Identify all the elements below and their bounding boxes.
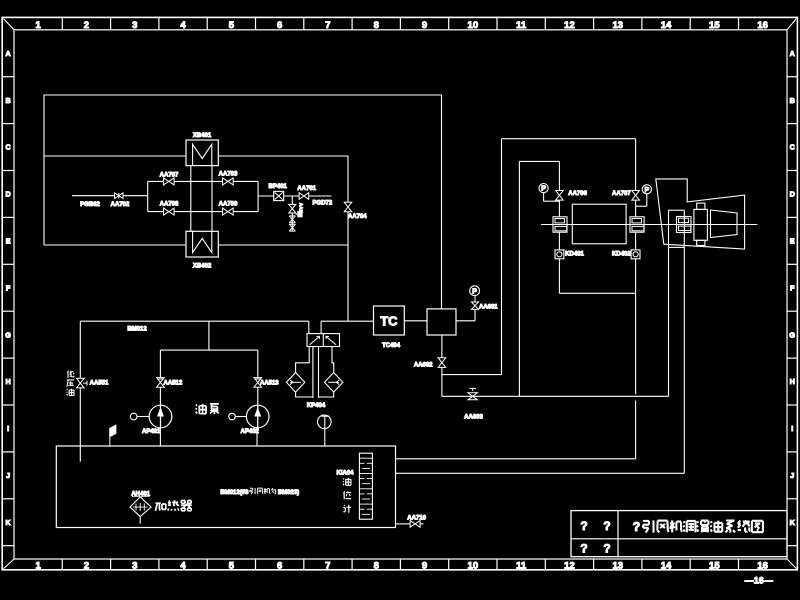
svg-text:16: 16 — [757, 560, 768, 571]
svg-text:AA707: AA707 — [612, 191, 631, 197]
svg-text:G: G — [789, 330, 795, 339]
svg-text:1: 1 — [36, 560, 42, 571]
svg-text:AA708: AA708 — [160, 202, 179, 208]
svg-text:K: K — [790, 518, 796, 527]
svg-text:AA513: AA513 — [260, 380, 279, 386]
svg-text:—16—: —16— — [745, 576, 773, 586]
svg-text:F: F — [6, 283, 11, 292]
svg-text:AA702: AA702 — [111, 202, 130, 208]
svg-text:XB401: XB401 — [193, 133, 212, 139]
svg-text:9: 9 — [422, 560, 427, 571]
svg-text:B: B — [790, 96, 795, 105]
svg-text:BM023): BM023) — [278, 490, 299, 496]
svg-text:2: 2 — [84, 20, 89, 31]
svg-text:?: ? — [580, 519, 587, 533]
svg-text:6: 6 — [277, 560, 282, 571]
svg-text:11: 11 — [516, 560, 527, 571]
svg-text:3: 3 — [132, 20, 137, 31]
svg-text:KD401: KD401 — [565, 252, 584, 258]
svg-text:16: 16 — [757, 20, 768, 31]
svg-text:G: G — [5, 330, 11, 339]
svg-text:P: P — [472, 288, 477, 295]
svg-text:AA602: AA602 — [414, 362, 433, 368]
svg-text:AA7: AA7 — [299, 203, 304, 213]
svg-text:KP404: KP404 — [307, 403, 326, 409]
svg-text:AA709: AA709 — [219, 202, 238, 208]
svg-text:AA710: AA710 — [407, 516, 426, 522]
svg-text:F: F — [790, 283, 795, 292]
svg-text:AA704: AA704 — [348, 214, 367, 220]
svg-text:1: 1 — [36, 20, 42, 31]
svg-text:E: E — [6, 236, 11, 245]
svg-text:11: 11 — [516, 20, 527, 31]
svg-text:5: 5 — [229, 20, 235, 31]
svg-text:TC404: TC404 — [382, 343, 401, 349]
svg-text:12: 12 — [564, 560, 575, 571]
svg-text:A: A — [790, 49, 795, 58]
svg-text:D: D — [790, 190, 795, 199]
svg-text:P: P — [541, 186, 546, 193]
svg-text:8: 8 — [374, 20, 379, 31]
svg-text:10: 10 — [468, 560, 479, 571]
svg-text:AA707: AA707 — [160, 172, 179, 178]
svg-text:12: 12 — [564, 20, 575, 31]
svg-text:AA703: AA703 — [219, 171, 238, 177]
svg-text:XB402: XB402 — [193, 263, 212, 269]
svg-text:BM012: BM012 — [127, 327, 147, 333]
svg-text:BP401: BP401 — [269, 184, 288, 190]
svg-text:J: J — [6, 471, 10, 480]
svg-text:PGB62: PGB62 — [80, 202, 100, 208]
svg-text:C: C — [790, 143, 795, 152]
svg-text:AA701: AA701 — [297, 186, 316, 192]
svg-text:I: I — [791, 424, 793, 433]
svg-text:H: H — [5, 377, 10, 386]
svg-text:KD402: KD402 — [612, 252, 631, 258]
svg-text:15: 15 — [709, 20, 720, 31]
svg-text:AP401: AP401 — [142, 429, 161, 435]
svg-text:I: I — [7, 424, 9, 433]
svg-text:C: C — [5, 143, 10, 152]
svg-text:PGD72: PGD72 — [313, 201, 333, 207]
svg-text:D: D — [5, 190, 10, 199]
svg-text:J: J — [790, 471, 794, 480]
svg-text:14: 14 — [661, 560, 672, 571]
svg-text:13: 13 — [612, 560, 623, 571]
svg-text:E: E — [790, 236, 795, 245]
svg-text:K: K — [5, 518, 11, 527]
svg-text:9: 9 — [422, 20, 427, 31]
svg-text:BM012(#3: BM012(#3 — [220, 490, 249, 496]
svg-text:TC: TC — [380, 313, 398, 328]
svg-text:B: B — [5, 96, 10, 105]
svg-text:AA551: AA551 — [90, 380, 109, 386]
svg-text:10: 10 — [468, 20, 479, 31]
svg-text:KIA04: KIA04 — [336, 470, 354, 476]
svg-text:2: 2 — [84, 560, 89, 571]
svg-text:13: 13 — [612, 20, 623, 31]
svg-text:AA603: AA603 — [464, 414, 483, 420]
svg-text:AA706: AA706 — [568, 191, 587, 197]
svg-text:7: 7 — [325, 20, 330, 31]
svg-text:8: 8 — [374, 560, 379, 571]
svg-text:P: P — [644, 187, 649, 194]
svg-text:4: 4 — [180, 560, 186, 571]
svg-text:14: 14 — [661, 20, 672, 31]
svg-text:3: 3 — [132, 560, 137, 571]
svg-text:H: H — [790, 377, 795, 386]
svg-text:?: ? — [580, 542, 587, 556]
svg-text:?: ? — [633, 520, 641, 534]
svg-text:6: 6 — [277, 20, 282, 31]
svg-text:A: A — [5, 49, 10, 58]
svg-text:?: ? — [603, 542, 610, 556]
svg-text:AA512: AA512 — [164, 380, 183, 386]
svg-text:15: 15 — [709, 560, 720, 571]
svg-text:5: 5 — [229, 560, 235, 571]
svg-text:7: 7 — [325, 560, 330, 571]
svg-text:4: 4 — [180, 20, 186, 31]
svg-text:?: ? — [603, 519, 610, 533]
svg-text:AA601: AA601 — [479, 304, 498, 310]
